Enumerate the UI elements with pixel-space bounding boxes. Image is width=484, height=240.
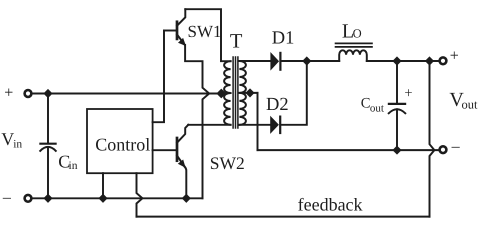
- node junction dot Cin top: [45, 90, 51, 96]
- wire control output to SW2 base: [153, 149, 176, 151]
- node junction dot D1-D2 join: [304, 58, 310, 64]
- wire primary tap stub: [221, 92, 231, 94]
- node junction dot control ground: [100, 195, 106, 201]
- control block box U1: [87, 109, 153, 173]
- transistor SW1 base wire: [164, 30, 176, 32]
- wire control output to SW1 base: [153, 31, 164, 123]
- svg-text:+: +: [404, 86, 412, 102]
- transformer core line 3: [237, 57, 239, 128]
- wire SW1 emitter to ground: [185, 45, 209, 198]
- svg-text:–: –: [451, 138, 461, 155]
- wire secondary tap down to output minus rail: [257, 93, 259, 150]
- node junction dot SW2 emitter at ground rail: [183, 195, 189, 201]
- node junction dot Cout bottom: [394, 147, 400, 153]
- svg-text:Control: Control: [95, 135, 150, 155]
- wire SW2 emitter to ground: [185, 166, 187, 198]
- transistor SW1 emitter: [177, 34, 185, 44]
- wire feedback vertical drop: [430, 61, 435, 217]
- svg-text:T: T: [230, 31, 243, 53]
- capacitor Cin curved plate: [40, 147, 56, 151]
- diode D2 cathode bar: [279, 117, 281, 133]
- capacitor Cout flat plate: [389, 103, 405, 105]
- node junction dot feedback tap on Vout+ rail: [426, 58, 432, 64]
- svg-text:SW1: SW1: [188, 22, 222, 41]
- inductor Lo core bar 1: [336, 42, 372, 44]
- transistor SW1 collector: [177, 9, 185, 26]
- svg-text:D2: D2: [266, 95, 289, 115]
- capacitor Cin bottom lead: [47, 147, 49, 198]
- svg-text:–: –: [2, 189, 12, 206]
- wire ground rail: [33, 197, 203, 199]
- transformer T secondary winding: [239, 61, 246, 125]
- transistor SW2 emitter: [177, 156, 184, 167]
- node Vin+ terminal (open circle): [25, 90, 32, 97]
- wire SW2 collector to primary bottom: [188, 124, 230, 126]
- transistor SW1 emitter arrowhead: [179, 39, 185, 45]
- svg-text:D1: D1: [272, 28, 295, 48]
- transistor SW2 emitter arrowhead: [179, 160, 185, 167]
- svg-text:O: O: [353, 26, 362, 40]
- svg-text:feedback: feedback: [298, 195, 363, 215]
- wire output minus rail: [258, 149, 440, 151]
- svg-text:out: out: [370, 103, 384, 115]
- transformer core line 2: [235, 57, 237, 128]
- wire control feedback pin: [137, 173, 143, 216]
- transistor Q1 SW1 base bar: [176, 22, 179, 39]
- svg-text:+: +: [450, 48, 459, 65]
- capacitor Cin top lead: [47, 94, 49, 143]
- wire Vin+ rail: [33, 93, 219, 95]
- wire secondary top lead to D1: [239, 60, 271, 62]
- node primary center tap junction dot: [218, 90, 225, 97]
- wire Lo to Vout+ terminal: [367, 60, 439, 62]
- svg-text:SW2: SW2: [210, 153, 245, 173]
- svg-text:in: in: [13, 139, 22, 151]
- transformer core line 1: [232, 57, 234, 128]
- transformer T primary winding: [224, 61, 231, 125]
- capacitor Cout bottom lead: [396, 109, 398, 150]
- node Vout- terminal (open circle): [440, 146, 447, 153]
- node secondary center tap junction dot: [247, 90, 253, 96]
- wire SW1 collector top run: [185, 9, 230, 61]
- wire secondary center tap stub: [239, 92, 257, 94]
- capacitor Cin flat plate: [40, 143, 55, 145]
- diode D1 triangle: [271, 53, 279, 69]
- transistor SW2 collector: [177, 125, 188, 143]
- diode D1 cathode bar: [279, 53, 281, 70]
- node junction dot Cin bottom: [45, 195, 51, 201]
- capacitor Cout top lead: [396, 61, 398, 103]
- wire feedback bottom run: [137, 216, 430, 218]
- capacitor Cout curved plate: [389, 109, 406, 113]
- node Vout+ terminal (open circle): [440, 57, 447, 64]
- wire control ground pin: [102, 173, 104, 198]
- node Vin- terminal (open circle): [25, 195, 32, 202]
- inductor Lo coil: [339, 50, 367, 61]
- inductor Lo core bar 2: [336, 46, 372, 48]
- wire D2 cathode up to D1 rail: [281, 61, 307, 125]
- svg-text:+: +: [4, 84, 13, 101]
- node junction dot Cout top: [394, 58, 400, 64]
- svg-text:in: in: [69, 160, 78, 172]
- diode D2 triangle: [271, 117, 279, 133]
- wire secondary bottom lead to D2: [239, 124, 270, 126]
- transistor Q2 SW2 base bar: [176, 138, 179, 161]
- wire D1 cathode to Lo: [281, 60, 339, 62]
- svg-text:out: out: [462, 97, 479, 111]
